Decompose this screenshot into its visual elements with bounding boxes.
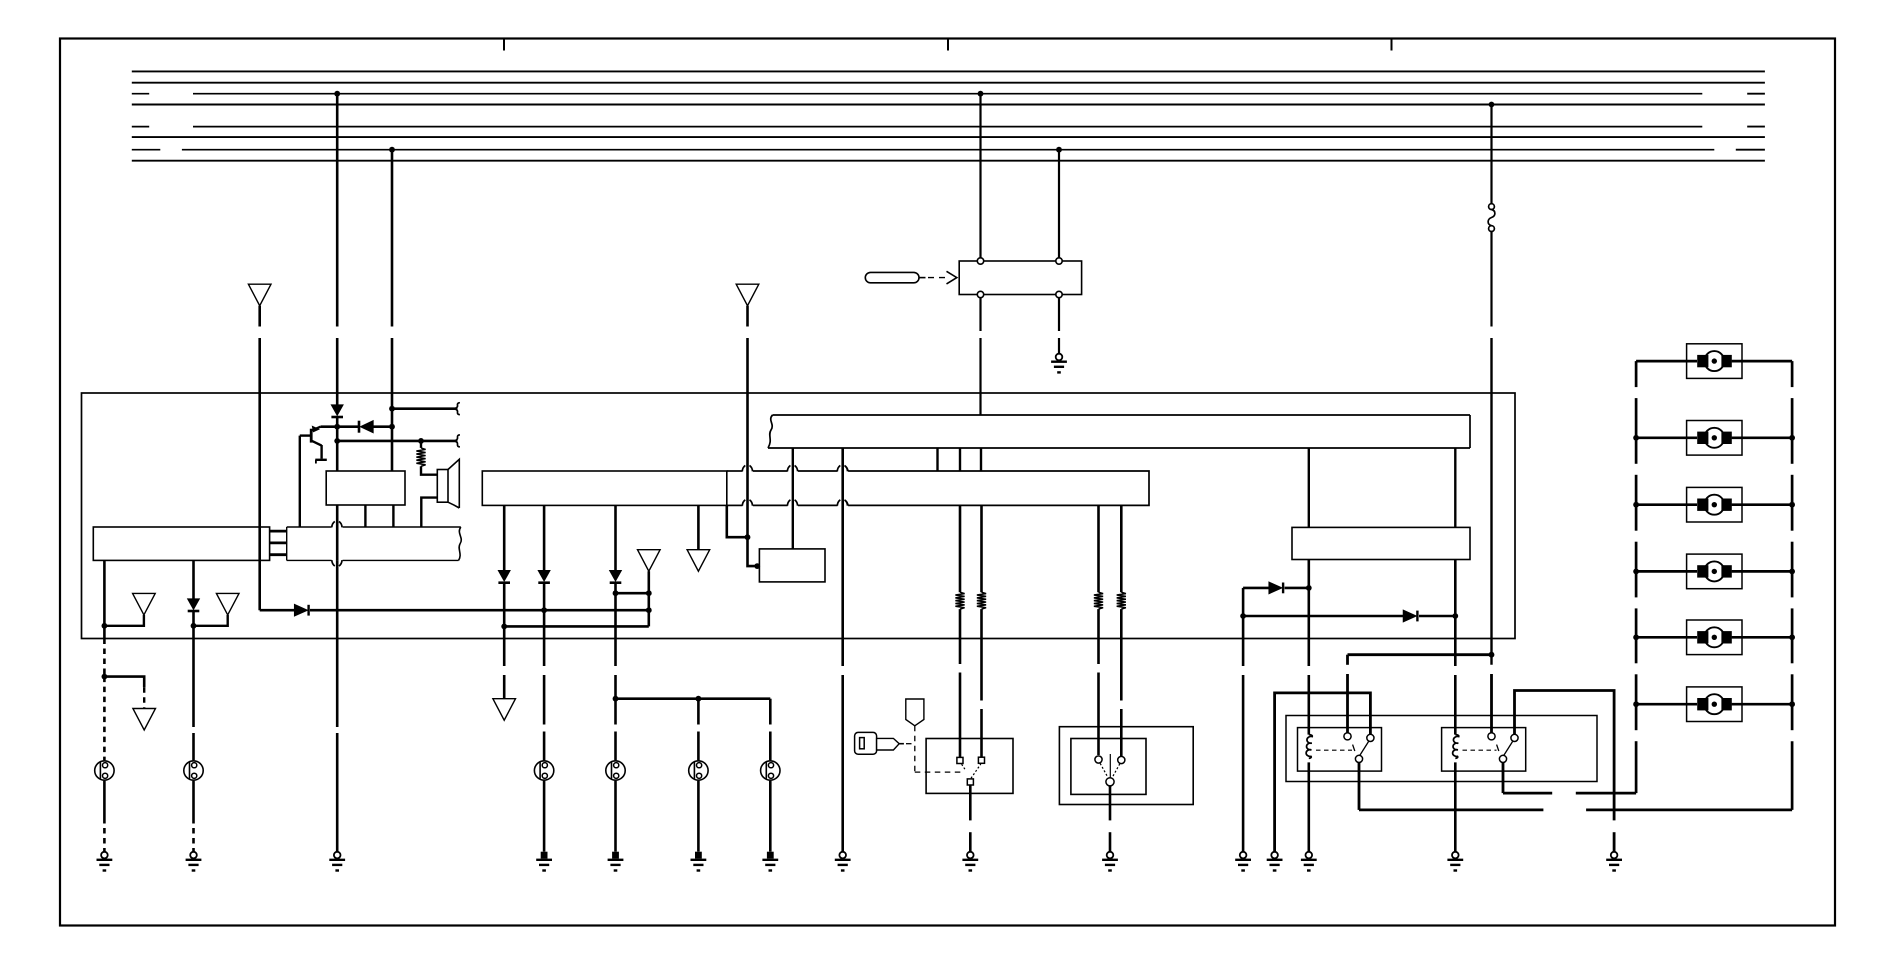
wire bus line 5 (broken segments): [132, 126, 149, 128]
junction motor M2 left: [1633, 435, 1639, 441]
transistor Q1: [310, 429, 313, 443]
wire bulb B2 to ground: [614, 781, 617, 852]
relay 2 contacts: [1488, 733, 1495, 740]
junction motor M5 right: [1789, 634, 1795, 640]
wire drop B upper: [391, 150, 394, 327]
wire dashed key link: [906, 743, 915, 745]
circuit breaker: [1489, 204, 1495, 210]
junction bus/drop C: [978, 91, 984, 97]
wire r4 to switch: [1120, 609, 1123, 700]
wire barL to boxR a: [1308, 448, 1310, 527]
wire stub box1-c: [392, 505, 394, 527]
wire breaker down upper: [1490, 232, 1492, 327]
connector ignition switch: [959, 261, 1081, 295]
wire bus line 8: [132, 160, 1765, 162]
wire T1 branch: [104, 615, 143, 626]
wire motor M5 leads: [1636, 636, 1697, 639]
wire barL to ground (long): [841, 448, 844, 666]
wire relay1 common to motor-right bus: [1358, 763, 1361, 810]
pentagon lock marker: [906, 699, 924, 726]
ground bulb B5: [101, 852, 108, 859]
wire left drop to box edge: [103, 626, 106, 639]
wire bar4 drop r2: [980, 505, 983, 592]
triangle marker T1: [133, 593, 156, 615]
wire dashed lock link vertical: [914, 726, 916, 772]
resistor R5: [1117, 592, 1126, 609]
ground switch2: [1107, 852, 1114, 859]
wire dashed feed 1 upper: [103, 639, 106, 677]
pin ignition top-left: [977, 258, 983, 264]
diode D8: [1269, 582, 1282, 593]
crossover curls at ground wire bottom: [837, 500, 840, 506]
junction y610/drop 544: [541, 607, 547, 613]
wire base-net to ground: [336, 560, 339, 727]
wire T2 branch: [194, 615, 228, 626]
junction motor M3 right: [1789, 502, 1795, 508]
wire ignition out left upper: [979, 298, 981, 331]
wire drop B lower: [391, 338, 394, 471]
box main bar (bar L, torn left edge): [773, 414, 1471, 416]
junction D9 anode net: [1240, 613, 1246, 619]
wire bus line 7 (broken segments): [132, 149, 161, 151]
wire drop 544 lower: [543, 583, 546, 666]
diode D3: [188, 599, 199, 609]
wire boxR down b: [1454, 560, 1457, 639]
box control unit (outer): [82, 393, 1516, 639]
junction sub box entry: [754, 563, 760, 569]
pin ignition top-right: [1056, 258, 1062, 264]
triangle marker T6: [687, 550, 710, 572]
triangle marker top-middle: [736, 284, 759, 306]
wire run y626: [504, 625, 649, 628]
crossover curls top link a: [742, 465, 745, 471]
ground relay2 coil: [1452, 852, 1459, 859]
junction node D1/collector: [334, 424, 340, 430]
ground bulb B6: [190, 852, 197, 859]
wire drop A upper: [336, 94, 339, 327]
wire link 615-648: [616, 592, 649, 595]
wire bar2 drop left: [103, 560, 106, 625]
junction dashed feed branch: [102, 674, 108, 680]
wire branch to relay1: [1348, 653, 1492, 656]
triangle marker T3: [638, 550, 661, 572]
junction motor M6 right: [1789, 701, 1795, 707]
wire bulb B3 to ground: [697, 781, 700, 852]
wire r1 to switch: [959, 609, 962, 664]
wire collector line: [321, 425, 360, 428]
connector link cells: [270, 530, 287, 533]
wire bulb B6 to ground: [192, 781, 195, 818]
wire drop 504 lower: [503, 583, 506, 639]
wire bus line 2: [132, 82, 1765, 84]
wire middle feed into sub box: [748, 537, 759, 566]
wire bus line 3 (broken segments): [132, 93, 149, 95]
ground relay2 NC: [1611, 852, 1618, 859]
ground relay1 coil: [1306, 852, 1313, 859]
wire emitter-row horizontal: [337, 440, 457, 443]
wire drop 504 below box: [503, 639, 506, 667]
wire feed 2 to bulb: [192, 639, 195, 728]
junction link row middle: [696, 696, 702, 702]
junction drop B / connector stub: [389, 406, 395, 412]
speaker (buzzer): [437, 470, 448, 503]
junction motor M5 left: [1633, 634, 1639, 640]
wire dashed feed 1 to bulb: [103, 677, 106, 761]
connector curl lower: [456, 435, 460, 441]
junction T3 link upper: [646, 590, 652, 596]
box sub-unit R: [1292, 527, 1470, 559]
wire switch1 to ground: [969, 785, 972, 821]
junction bus/drop B: [389, 147, 395, 153]
wire relay coil feed a: [1308, 639, 1311, 667]
diode D6: [539, 571, 550, 581]
switch contacts: [957, 757, 963, 763]
arrow key insert: [947, 271, 957, 284]
junction bus/drop A: [334, 91, 340, 97]
connector bar 3: [482, 471, 727, 505]
pin ignition bottom-right: [1056, 291, 1062, 297]
wire bar3-bar4 bottom link: [727, 504, 743, 506]
bulb B2: [606, 761, 625, 780]
wire motor-right bus: [1791, 361, 1794, 387]
wire ignition out right lower: [1058, 338, 1060, 354]
connector bar 4 (open left): [848, 471, 1149, 505]
motor M1: [1687, 344, 1742, 379]
wire D8 anode feed: [1243, 587, 1269, 590]
wire dashed link to switch: [915, 771, 964, 773]
wire relay2 common to motor-left bus: [1502, 763, 1505, 794]
relay 1 box: [1298, 728, 1382, 772]
connector bar left (bar2): [93, 527, 269, 560]
wire bulb B4 to ground: [769, 781, 772, 852]
wire drop 615 to bulb: [614, 699, 617, 725]
wire bar3 tap: [727, 505, 748, 537]
wire relay1 switch feed: [1346, 655, 1349, 665]
wire anode net vertical: [1242, 588, 1245, 616]
wire drop 504 upper: [503, 505, 506, 570]
ground bulb B3: [695, 852, 702, 859]
wire bar3-bar4 top link: [727, 470, 743, 472]
wire D3 to junction: [192, 611, 195, 626]
wire bar4 drop r4: [1120, 505, 1123, 592]
wire r3 to switch: [1097, 609, 1100, 664]
key symbol (ignition key): [865, 272, 919, 282]
wire node to box1: [336, 427, 339, 471]
ground bulb B1: [541, 852, 548, 859]
junction motor M4 left: [1633, 569, 1639, 575]
wire T3 apex down: [647, 571, 650, 626]
wire bar4 drop r1: [959, 505, 962, 592]
bulb B5: [95, 761, 114, 780]
bulb B4: [761, 761, 780, 780]
wire relay1 NC to ground loop: [1275, 693, 1371, 852]
crossover curls top link b: [787, 465, 790, 471]
junction second drop / triangle branch: [191, 623, 197, 629]
connector curl upper: [456, 403, 460, 409]
wire branch to T4: [104, 677, 144, 688]
switch 2 contacts: [1095, 756, 1102, 763]
crossover curls bar2b top: [332, 521, 335, 527]
resistor R3: [977, 592, 986, 609]
junction node emitter row left: [334, 438, 340, 444]
relay 2 coil to ground: [1454, 762, 1457, 851]
relay 1 coil: [1306, 735, 1312, 759]
switch box 2 inner: [1071, 739, 1146, 795]
ground bulb B2: [612, 852, 619, 859]
ground relay loop: [1271, 852, 1278, 859]
wire run y610 with diode D4: [260, 609, 295, 612]
diode D2: [358, 421, 361, 433]
wire bar2 drop second: [192, 560, 195, 599]
wire r2 to switch: [980, 609, 983, 700]
junction bus/drop E: [1489, 102, 1495, 108]
wire middle feed upper: [746, 306, 749, 327]
wire drop 544 upper: [543, 505, 546, 570]
box sub-unit 2: [759, 549, 825, 582]
wire motor M6 leads: [1636, 703, 1697, 706]
relay 2 box: [1442, 728, 1526, 772]
wire motor-left bus: [1635, 361, 1638, 387]
wire bus line 4: [132, 104, 1765, 106]
junction D9 cathode: [1452, 613, 1458, 619]
crossover curls at ground wire top: [837, 465, 840, 471]
relay 2 coil: [1453, 735, 1459, 759]
resistor R2: [955, 592, 964, 609]
wire triangle drop upper: [258, 306, 261, 327]
ground base-net: [334, 852, 341, 859]
wire barL to sub box: [792, 448, 794, 549]
wire stub barL-bar4 b: [959, 448, 961, 471]
bulb B1: [534, 761, 553, 780]
key symbol 2: [855, 732, 877, 754]
wire through bar2b: [336, 527, 339, 560]
wire motor M3 leads: [1636, 503, 1697, 506]
wire motor M4 leads: [1636, 570, 1697, 573]
junction left drop / triangle branch: [102, 623, 108, 629]
wire breaker down lower: [1490, 338, 1492, 665]
junction motor M2 right: [1789, 435, 1795, 441]
wire run y610 continue: [310, 609, 649, 612]
junction resistor tap: [418, 438, 424, 444]
junction y610 end: [646, 607, 652, 613]
triangle marker T5: [493, 699, 516, 721]
ground bulb B4: [767, 852, 774, 859]
junction y626 end on drop 504: [501, 624, 507, 630]
wire speaker low terminal: [421, 498, 437, 527]
ground ignition switch: [1056, 354, 1063, 361]
wire bulb B1 to ground: [543, 781, 546, 852]
wire stub box1-a: [336, 505, 339, 527]
wire drop 615 upper: [614, 505, 617, 570]
wire link row right down: [769, 699, 772, 725]
wire relay2 NC path: [1515, 691, 1615, 821]
wire bar4 drop r3: [1097, 505, 1100, 592]
box sub-unit 1: [326, 471, 405, 505]
junction motor M3 left: [1633, 502, 1639, 508]
bulb B6: [184, 761, 203, 780]
wire barL to boxR b: [1454, 448, 1456, 527]
motor M2: [1687, 421, 1742, 456]
wire link row to bulb B3: [697, 699, 700, 725]
switch key cylinder (box): [926, 739, 1013, 794]
wire second drop to box edge: [192, 626, 195, 639]
wire base down to connector bar: [299, 436, 301, 527]
wire drop 615 lower: [614, 583, 617, 666]
wire stub to connector curl: [392, 407, 458, 410]
triangle marker T4: [133, 709, 156, 731]
relay 2 dashed link: [1463, 749, 1497, 751]
relay 1 dashed link: [1316, 749, 1352, 751]
wire switch2 to ground: [1109, 786, 1112, 820]
junction bus/drop D: [1056, 147, 1062, 153]
wire bulb B5 to ground: [103, 781, 106, 818]
wire bar3 to triangle T6: [697, 505, 700, 549]
wire middle feed lower: [746, 338, 749, 537]
junction D8 cathode: [1306, 585, 1312, 591]
wire motor M1 leads: [1636, 360, 1697, 363]
switch box 2 outer: [1059, 727, 1193, 805]
ground anode net: [1240, 852, 1247, 859]
wire link row horizontal: [616, 697, 771, 700]
wire D2 to drop B: [373, 425, 392, 428]
junction drop B / diode D2 line: [389, 424, 395, 430]
wire motor M2 leads: [1636, 436, 1697, 439]
junction motor M4 right: [1789, 569, 1795, 575]
junction breaker branch: [1489, 652, 1495, 658]
diode D1: [332, 405, 343, 415]
relay assembly outer box: [1286, 716, 1597, 782]
wire ignition out right upper: [1058, 298, 1060, 331]
junction link on drop 615: [613, 590, 619, 596]
motor M3: [1687, 487, 1742, 522]
wire R1 to speaker: [421, 466, 437, 474]
triangle marker T2: [216, 593, 239, 615]
motor M5: [1687, 620, 1742, 655]
wire boxR down a: [1308, 560, 1311, 639]
wire drop D to ignition switch: [1058, 150, 1060, 258]
wire triangle drop lower: [258, 338, 261, 610]
wire drop E to circuit breaker: [1490, 105, 1492, 204]
wire D9 anode feed: [1243, 615, 1403, 618]
wire bus line 1: [132, 70, 1765, 72]
junction motor M6 left: [1633, 701, 1639, 707]
crossover curls bottom link b: [787, 500, 790, 506]
wire drop C to ignition switch: [979, 94, 981, 258]
wire D9 to junction: [1419, 615, 1455, 618]
junction link row left: [613, 696, 619, 702]
ground main bar: [839, 852, 846, 859]
motor M4: [1687, 554, 1742, 589]
wire bus line 6: [132, 136, 1765, 138]
diode D7: [610, 571, 621, 581]
diode D9: [1403, 610, 1416, 621]
wire stub barL-bar4 a: [936, 448, 938, 471]
motor M6: [1687, 687, 1742, 722]
wire relay coil feed b: [1454, 639, 1457, 667]
wire breaker to relay2 switch: [1490, 674, 1493, 733]
wire drop A lower to diode D1: [336, 338, 339, 405]
wire D1 to node: [336, 417, 339, 427]
triangle marker top-left: [248, 284, 271, 306]
pin ignition bottom-left: [977, 291, 983, 297]
wire D8 to junction: [1285, 587, 1309, 590]
diode D5: [499, 571, 510, 581]
crossover curls bar2b bottom: [332, 560, 335, 566]
wire ignition out left lower: [979, 338, 981, 415]
crossover curls bottom link a: [742, 500, 745, 506]
relay 1 coil to ground: [1308, 762, 1311, 851]
wire dashed key actuation: [928, 277, 946, 279]
wire anode net to ground: [1242, 616, 1245, 666]
diode D4: [295, 605, 308, 616]
ground switch1: [967, 852, 974, 859]
connector bar right (bar2b, torn right edge): [286, 527, 288, 560]
wire resistor feed: [420, 441, 422, 448]
wire stub barL-bar4 c: [980, 448, 982, 471]
relay 1 contacts: [1344, 733, 1351, 740]
bulb B3: [689, 761, 708, 780]
wire stub box1-b: [364, 505, 366, 527]
junction bar3 tap / middle feed: [745, 534, 751, 540]
resistor R4: [1094, 592, 1103, 609]
resistor R1: [416, 448, 425, 466]
